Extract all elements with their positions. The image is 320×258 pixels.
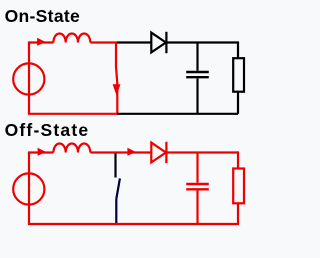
wire: circuit1 top red segment inductor to switch node (90, 41, 117, 43)
diode D1 (black, blocking) (151, 32, 166, 53)
capacitor C1 plates (186, 72, 209, 77)
wire: circuit1 bottom red segment (28, 113, 117, 115)
wire: circuit1 top red segment left of inductor (28, 41, 54, 43)
wire: circuit1 bottom black segment (117, 113, 238, 115)
current arrow before diode D2 (127, 148, 135, 156)
capacitor C2 lower lead (196, 191, 198, 225)
wire: circuit2 top red segment left of inductor (28, 151, 54, 153)
svg-text:Off-State: Off-State (5, 120, 90, 140)
svg-text:On-State: On-State (5, 6, 80, 26)
inductor L2 (red) (53, 144, 90, 153)
wire: circuit1 left edge (red) (28, 43, 30, 114)
current arrow on circuit1 top wire (37, 38, 46, 46)
wire: circuit1 right edge upper (black) (237, 41, 239, 58)
wire: circuit2 top red segment diode to right edge (166, 151, 238, 153)
voltage source V1 (red circle) (13, 63, 44, 94)
current arrow on circuit2 top wire (38, 148, 47, 156)
wire: circuit2 right edge upper (red) (237, 151, 239, 168)
resistor R2 (red load) (233, 169, 244, 204)
capacitor C1 (black) upper lead (196, 43, 198, 71)
wire: circuit1 top black segment switch node to diode (117, 41, 151, 43)
resistor R1 (black load) (233, 58, 244, 91)
voltage source V2 (red circle) (13, 173, 44, 204)
inductor L1 (red) (53, 34, 90, 43)
capacitor C2 plates (186, 184, 209, 189)
wire: circuit1 top black segment diode to right edge (166, 41, 238, 43)
switch S1 closed (red, conducting) (116, 42, 117, 114)
capacitor C1 lower lead (196, 78, 198, 113)
wire: circuit2 right edge lower (red) (237, 203, 239, 224)
wire: circuit2 top red segment inductor to diode (90, 151, 151, 153)
diode D2 (red, conducting) (151, 142, 166, 163)
capacitor C2 (red) upper lead (196, 153, 198, 183)
wire: circuit2 left edge (red) (28, 153, 30, 225)
wire: circuit2 bottom (red) (28, 223, 239, 225)
switch S2 open: top contact (black) (114, 154, 116, 178)
wire: circuit1 right edge lower (black) (237, 92, 239, 114)
current arrow on switch branch (down) (113, 84, 121, 96)
switch S2 bottom lead (dark navy) (115, 199, 117, 224)
switch S2 open blade (dark navy) (116, 178, 120, 199)
